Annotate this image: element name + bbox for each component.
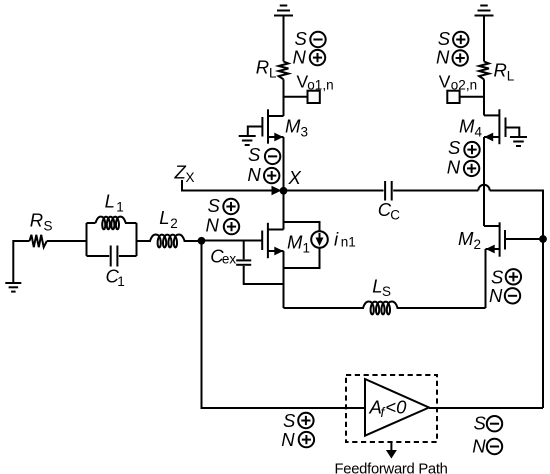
wire xyxy=(202,241,366,408)
resistor RL right xyxy=(479,62,489,80)
inductor L2 xyxy=(150,234,185,247)
label S+ N+ M4 xyxy=(447,137,480,178)
svg-text:R: R xyxy=(256,57,269,78)
label Cex xyxy=(210,245,236,266)
wire xyxy=(284,307,365,309)
svg-text:M: M xyxy=(287,232,303,253)
svg-text:L: L xyxy=(159,207,169,228)
wire gate M2 xyxy=(505,238,543,240)
label S- N- ff right xyxy=(472,413,502,457)
wire xyxy=(483,16,485,62)
svg-text:<0: <0 xyxy=(385,397,407,418)
svg-text:N: N xyxy=(447,157,461,178)
svg-text:ex: ex xyxy=(222,252,237,267)
svg-text:L: L xyxy=(507,69,515,84)
svg-text:4: 4 xyxy=(475,125,483,140)
wire drain M2 xyxy=(483,137,485,226)
wire xyxy=(283,79,285,116)
resistor RL left xyxy=(279,62,289,80)
arrow feedforward xyxy=(386,442,397,459)
capacitor CC xyxy=(385,181,392,201)
wire hop over xyxy=(478,185,489,191)
svg-text:S: S xyxy=(208,195,221,216)
svg-text:1: 1 xyxy=(116,200,124,215)
capacitor C1 xyxy=(87,246,137,267)
wire xyxy=(283,16,285,62)
svg-text:M: M xyxy=(458,228,474,249)
svg-text:M: M xyxy=(285,116,301,137)
svg-text:S: S xyxy=(382,284,391,299)
label RL right xyxy=(494,60,515,84)
node B xyxy=(199,238,205,244)
transistor M4 xyxy=(484,109,506,144)
wire xyxy=(397,307,486,309)
label RS xyxy=(30,210,53,234)
terminal Vo1n xyxy=(284,91,320,103)
svg-text:N: N xyxy=(247,164,261,185)
svg-text:1: 1 xyxy=(303,241,311,256)
label S- N+ top left xyxy=(293,28,326,67)
wire xyxy=(483,79,485,115)
label S+ N+ top right xyxy=(436,28,468,67)
wire drain M1 xyxy=(283,193,285,230)
transistor M3 xyxy=(262,109,283,143)
wire hop to corner xyxy=(490,191,543,239)
svg-text:L: L xyxy=(269,66,277,81)
wire node X to CC xyxy=(284,190,384,192)
svg-text:2: 2 xyxy=(170,216,178,231)
label M3 xyxy=(285,116,308,140)
svg-text:R: R xyxy=(494,60,507,81)
label CC xyxy=(378,199,401,223)
svg-text:1: 1 xyxy=(117,274,125,289)
label in1 xyxy=(334,228,356,249)
svg-text:N: N xyxy=(293,46,307,67)
node C gate M2 xyxy=(540,236,546,242)
svg-text:2: 2 xyxy=(474,237,482,252)
svg-text:V: V xyxy=(439,72,451,92)
svg-text:o1,n: o1,n xyxy=(307,77,333,92)
svg-text:S: S xyxy=(248,144,261,165)
label M1 xyxy=(287,232,310,256)
label X xyxy=(288,167,302,188)
label S+ N- M2 xyxy=(489,267,521,307)
label Feedforward Path xyxy=(335,462,448,474)
gate ground M3 xyxy=(239,127,263,146)
wire xyxy=(542,239,544,408)
label Vo1n xyxy=(297,72,334,93)
svg-text:N: N xyxy=(281,429,295,450)
label ZX xyxy=(174,162,195,186)
svg-text:L: L xyxy=(105,191,115,212)
svg-text:i: i xyxy=(334,228,339,249)
capacitor Cex xyxy=(236,241,283,285)
label M4 xyxy=(459,116,483,140)
svg-text:S: S xyxy=(448,137,461,158)
svg-text:X: X xyxy=(186,170,195,185)
label S+ N+ node B xyxy=(206,195,240,235)
gate ground M4 xyxy=(506,128,528,147)
inductor LS xyxy=(363,301,398,314)
svg-text:N: N xyxy=(436,47,450,68)
svg-text:3: 3 xyxy=(301,125,309,140)
wire gate M1 xyxy=(202,240,263,242)
svg-text:n1: n1 xyxy=(341,235,356,250)
svg-text:C: C xyxy=(390,208,400,223)
svg-text:N: N xyxy=(489,285,503,306)
label RL left xyxy=(256,57,277,81)
node X xyxy=(281,188,287,194)
svg-text:X: X xyxy=(288,167,302,188)
label Vo2n xyxy=(439,72,477,93)
label S- N+ M3 xyxy=(247,144,280,185)
transistor M1 xyxy=(262,223,283,258)
wire xyxy=(184,240,202,242)
wire xyxy=(47,240,87,242)
wire xyxy=(137,240,152,242)
current source in1 xyxy=(284,222,328,268)
inductor L1 xyxy=(87,217,137,230)
wire CC to hop xyxy=(393,190,478,192)
svg-text:M: M xyxy=(459,116,475,137)
label L2 xyxy=(159,207,177,231)
terminal Vo2n xyxy=(447,91,484,103)
transistor M2 xyxy=(484,222,505,256)
label C1 xyxy=(106,265,125,289)
svg-text:S: S xyxy=(474,413,487,434)
feedforward box xyxy=(346,375,437,442)
wire xyxy=(429,407,543,409)
svg-text:N: N xyxy=(206,214,220,235)
label M2 xyxy=(458,228,481,252)
wire source M2 xyxy=(485,249,487,308)
node A tank xyxy=(87,223,137,256)
wire source M3 xyxy=(283,137,285,191)
resistor RS xyxy=(30,235,47,247)
label Af<0 xyxy=(369,397,408,421)
op-amp Af xyxy=(365,379,429,436)
label L1 xyxy=(105,191,124,215)
wire source M1 xyxy=(283,251,285,308)
label S+ N+ ff left xyxy=(281,410,314,450)
wire xyxy=(13,241,29,283)
svg-text:o2,n: o2,n xyxy=(451,77,477,92)
svg-text:Feedforward Path: Feedforward Path xyxy=(335,462,448,474)
ground xyxy=(5,283,21,292)
power rail top left xyxy=(274,6,293,16)
svg-text:S: S xyxy=(283,410,296,431)
power rail top right xyxy=(475,6,494,16)
svg-text:R: R xyxy=(30,210,43,231)
svg-text:N: N xyxy=(472,436,486,457)
impedance arrow ZX xyxy=(182,180,282,195)
label LS xyxy=(372,275,391,299)
svg-text:S: S xyxy=(44,219,53,234)
